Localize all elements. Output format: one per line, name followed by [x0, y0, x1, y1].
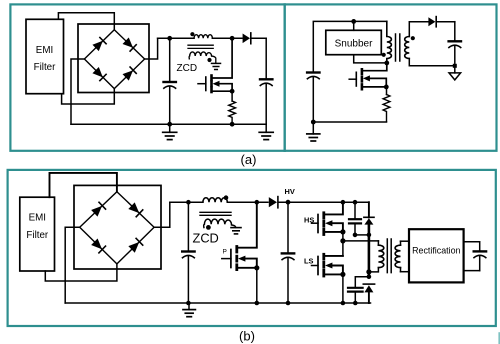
bridge diode upper-left (b): [91, 202, 105, 216]
node: bus cap bottom dot (b): [286, 301, 291, 306]
node: HS diode bottom dot: [367, 233, 372, 238]
node: rail dot above mosfet (b): [254, 200, 259, 205]
Snubber box: [326, 30, 382, 54]
node: HS drain rail dot: [341, 200, 346, 205]
wire diode to output cap: [454, 22, 456, 41]
node: cap bottom rail dot: [311, 120, 316, 125]
svg-text:P: P: [223, 249, 227, 256]
top rail (a-left): [158, 37, 194, 39]
node: snubber tap dot: [351, 19, 356, 24]
node: resistor bottom dot: [230, 122, 235, 127]
node: primary bottom junction dot: [384, 61, 389, 66]
MOSFET Q (b): [222, 202, 257, 269]
wire source to bottom rail (b): [256, 268, 258, 303]
node: input cap bottom dot: [167, 122, 172, 127]
resistor (a-left): [229, 101, 236, 124]
bridge rectifier box (b): [74, 185, 161, 269]
node: HS snubber cap top dot: [353, 200, 358, 205]
flyback output diode: [428, 17, 454, 27]
wire snubber box bottom to primary bottom node: [354, 55, 387, 63]
node: HS cap bottom dot: [353, 233, 358, 238]
node: LS source rail dot: [341, 301, 346, 306]
node: boost switch junction dot: [230, 36, 235, 41]
wire after inductor: [212, 37, 242, 39]
ZCD primary phase dot (b): [224, 195, 229, 200]
node: switch node dot: [340, 238, 345, 243]
node: source junction dot (b): [254, 265, 259, 270]
ZCD secondary winding: [189, 52, 211, 59]
svg-text:(a): (a): [241, 152, 257, 167]
ZCD secondary winding (b): [204, 219, 232, 227]
bridge diamond (b): [80, 192, 154, 264]
svg-text:Snubber: Snubber: [335, 38, 373, 49]
wire output cap bottom to rectification: [464, 270, 480, 272]
top rail (b): [170, 201, 203, 203]
wire EMI bottom to bridge bottom vertex (b): [45, 264, 117, 281]
figure (b) outer teal frame: [8, 170, 496, 326]
bridge diode lower-left (b): [91, 238, 105, 252]
ground ZCD (b): [231, 228, 241, 234]
ground (a-right): [307, 122, 320, 141]
node: LS cap bottom dot: [353, 301, 358, 306]
bridge diode lower-left: [92, 67, 106, 81]
svg-text:ZCD: ZCD: [177, 63, 198, 74]
wire bridge right vertex up to top rail (b): [154, 202, 170, 227]
HS clamp diode: [364, 202, 374, 224]
ZCD secondary phase dot: [207, 58, 211, 62]
LS clamp diode: [363, 284, 374, 303]
primary phase dot: [382, 53, 386, 57]
svg-text:Filter: Filter: [34, 62, 57, 73]
flyback transformer primary winding: [387, 21, 392, 60]
wire bridge left vertex to bottom rail: [71, 59, 84, 124]
ground input (a-left): [163, 124, 177, 139]
ZCD secondary phase dot (b): [206, 225, 211, 230]
boost inductor winding (b ZCD primary): [203, 198, 227, 202]
node: output bottom corner dot: [453, 64, 457, 68]
svg-text:Filter: Filter: [26, 230, 49, 241]
wire switch node down to LS drain: [342, 241, 344, 256]
ground output (a-left): [259, 124, 273, 139]
MOSFET Q (a-right): [349, 63, 387, 89]
input capacitor (b): [182, 202, 194, 303]
bus capacitor (b): [282, 202, 294, 303]
bridge diode upper-right (b): [128, 202, 142, 216]
bottom rail (a-right): [313, 121, 386, 123]
ZCD primary phase dot: [190, 32, 194, 36]
wire secondary top to diode: [409, 22, 428, 37]
EMI Filter box (a): [26, 19, 64, 93]
EMI Filter box (b): [20, 197, 55, 271]
svg-text:EMI: EMI: [36, 45, 53, 56]
thick vertical to primary bottom: [368, 225, 371, 277]
ground ZCD (a): [212, 63, 221, 69]
top rail (a-right): [313, 21, 387, 71]
wire secondary bottom to rectification: [401, 271, 410, 273]
ZCD core lines: [188, 44, 213, 46]
wire rail down to output cap: [265, 38, 267, 78]
main transformer core (b): [386, 239, 388, 273]
bridge diamond (a): [84, 30, 144, 89]
node: input cap top dot (b): [186, 200, 191, 205]
wire rectification to output cap top: [464, 242, 480, 251]
secondary phase dot: [411, 36, 415, 40]
svg-text:Rectification: Rectification: [412, 246, 460, 256]
transformer core (a-right): [395, 34, 397, 61]
wire EMI top to bridge top vertex (b): [50, 173, 117, 197]
wire ZCD secondary to ground: [212, 56, 216, 63]
MOSFET HS: [312, 202, 343, 234]
bottom rail (b): [65, 302, 370, 304]
HV diode (b): [269, 197, 278, 208]
ZCD core lines (b): [200, 211, 231, 213]
figure (a) teal panel divider: [284, 4, 286, 150]
main transformer secondary (b): [395, 241, 400, 272]
wire ZCD secondary to ground (b): [232, 225, 236, 227]
MOSFET LS: [312, 254, 343, 276]
wire HS pair bottom tie: [355, 234, 369, 236]
node: source junction dot (a-right): [384, 85, 389, 90]
bridge diode upper-left: [92, 37, 106, 51]
wire switch node to transformer primary top: [343, 240, 379, 242]
bridge diode lower-right: [123, 67, 137, 81]
boost inductor winding (ZCD primary): [194, 35, 212, 39]
main transformer primary (b): [369, 241, 384, 272]
node: LS source dot: [340, 272, 345, 277]
wire diode to bus (b): [279, 201, 369, 203]
node: HS source dot: [340, 229, 345, 234]
wire secondary top to rectification: [401, 240, 410, 242]
output capacitor (a-left): [260, 79, 272, 124]
svg-text:HV: HV: [285, 187, 295, 196]
wire rail to snubber box: [353, 21, 355, 30]
boost diode (a): [243, 33, 267, 44]
bottom rail (a-left): [71, 123, 266, 125]
flyback transformer secondary winding: [405, 37, 410, 59]
node: primary bottom dot: [366, 269, 371, 274]
wire bridge left vertex to bottom rail (b): [65, 227, 80, 303]
output capacitor (b): [474, 251, 486, 270]
input capacitor (a-right): [307, 73, 319, 123]
wire after inductor (b): [227, 201, 268, 203]
wire source to resistor (a-right): [386, 87, 388, 95]
node: source junction dot (a-left): [230, 89, 235, 94]
wire source to resistor: [231, 91, 233, 101]
node: input cap bottom dot (b): [186, 301, 191, 306]
resistor (a-right): [383, 95, 390, 122]
chassis ground triangle (a-right): [449, 66, 461, 80]
Rectification box: [409, 229, 464, 282]
ground (b) main: [183, 303, 195, 317]
node: LS pair top dot: [367, 274, 372, 279]
wire HS source to switch node: [342, 232, 344, 241]
bridge rectifier box (a): [78, 24, 149, 93]
bridge diode lower-right (b): [128, 238, 142, 252]
svg-text:EMI: EMI: [29, 213, 46, 224]
wire LS source to bottom rail: [342, 274, 344, 303]
wire bridge right vertex up to top rail: [145, 38, 158, 59]
MOSFET Q (a-left): [198, 38, 232, 92]
wire secondary bottom to cap bottom: [409, 59, 455, 66]
svg-text:ZCD: ZCD: [193, 231, 219, 246]
svg-text:(b): (b): [239, 329, 255, 344]
HS snubber capacitor: [349, 202, 361, 235]
bridge diode upper-right: [123, 37, 137, 51]
decorative teal edge artifact bottom-right: [498, 333, 500, 344]
output capacitor (a-right): [449, 41, 461, 66]
node: bus cap dot (b): [286, 200, 291, 205]
svg-text:LS: LS: [304, 257, 314, 266]
input capacitor (a-left): [164, 38, 176, 124]
LS snubber capacitor: [348, 277, 369, 303]
node: input cap top dot: [167, 36, 172, 41]
node: source rail dot (b): [254, 301, 259, 306]
wire EMI top to bridge top vertex: [58, 13, 114, 30]
figure (a) outer teal frame: [10, 4, 496, 150]
wire EMI bottom to bridge bottom vertex: [62, 89, 115, 104]
